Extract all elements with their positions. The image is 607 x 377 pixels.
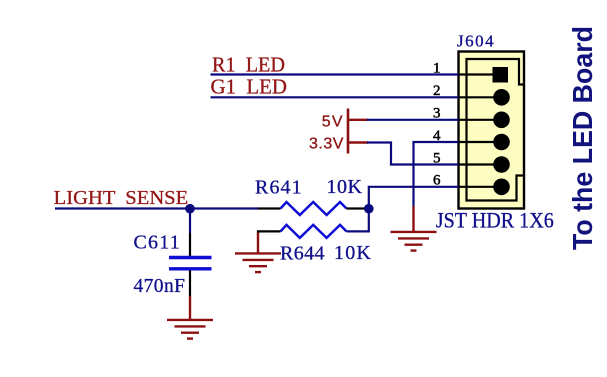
svg-text:10K: 10K bbox=[327, 176, 363, 198]
resistor R644 zigzag bbox=[281, 225, 347, 238]
wire pin 6 to junction bbox=[369, 187, 459, 209]
connector J604 inner outline bbox=[467, 59, 525, 201]
capacitor C611 pin bottom bbox=[189, 271, 191, 297]
ground stem (R644) bbox=[257, 233, 259, 253]
wire junction A down to C611 bbox=[189, 209, 191, 234]
supply bar 5V/3.3V bbox=[347, 109, 350, 154]
resistor R641 zigzag bbox=[281, 202, 347, 215]
connector J604 body bbox=[459, 52, 525, 209]
svg-text:G1 LED: G1 LED bbox=[211, 75, 288, 99]
pin 3 line bbox=[459, 119, 502, 121]
svg-text:R641: R641 bbox=[255, 177, 303, 199]
junction node B bbox=[364, 204, 374, 214]
supply 5V stub bbox=[348, 119, 368, 121]
pin 5 line bbox=[459, 163, 502, 165]
svg-text:LIGHT SENSE: LIGHT SENSE bbox=[54, 187, 189, 209]
supply 3.3V stub bbox=[348, 141, 368, 143]
pin 6 contact bbox=[493, 179, 510, 196]
svg-text:JST HDR 1X6: JST HDR 1X6 bbox=[436, 208, 554, 233]
svg-text:To the LED Board: To the LED Board bbox=[567, 26, 598, 250]
svg-text:5V: 5V bbox=[322, 114, 344, 131]
wire 3.3V to pin 5 bbox=[367, 143, 459, 165]
ground symbol (pin 4) bbox=[391, 232, 437, 251]
wire 5V to pin 3 bbox=[367, 119, 459, 121]
junction node A bbox=[185, 204, 195, 214]
wire LIGHT SENSE bbox=[55, 207, 258, 209]
ground symbol (R644) bbox=[235, 253, 281, 272]
pin 4 line bbox=[459, 141, 502, 143]
pin 3 contact bbox=[493, 112, 510, 129]
capacitor C611 pin top bbox=[189, 233, 191, 256]
pin 6 line bbox=[459, 186, 502, 188]
svg-text:C611: C611 bbox=[134, 232, 181, 254]
wire junction B down to R644 bbox=[347, 209, 369, 232]
wire pin 4 to ground bbox=[414, 142, 459, 206]
pin 4 contact bbox=[493, 134, 510, 151]
resistor R641 lead right bbox=[347, 207, 369, 209]
resistor R641 lead left bbox=[258, 207, 281, 209]
pin 5 contact bbox=[493, 156, 510, 173]
pin 1 line bbox=[459, 73, 501, 75]
capacitor C611 plates bbox=[169, 256, 212, 259]
pin 1 contact (square) bbox=[493, 67, 509, 83]
ground stem (pin 4) bbox=[412, 206, 414, 231]
svg-text:470nF: 470nF bbox=[134, 276, 186, 297]
svg-text:R644: R644 bbox=[280, 243, 325, 265]
resistor R644 lead left bbox=[258, 231, 281, 234]
pin 2 contact bbox=[493, 89, 510, 106]
svg-text:J604: J604 bbox=[457, 32, 495, 51]
svg-text:10K: 10K bbox=[334, 242, 372, 264]
wire G1 LED to pin 2 bbox=[211, 96, 459, 98]
wire R1 LED to pin 1 bbox=[211, 73, 459, 75]
svg-text:R1 LED: R1 LED bbox=[212, 52, 285, 76]
ground symbol (C611) bbox=[167, 320, 213, 339]
svg-text:3.3V: 3.3V bbox=[309, 136, 344, 153]
ground stem (C611) bbox=[189, 296, 191, 319]
pin 2 line bbox=[459, 96, 502, 98]
